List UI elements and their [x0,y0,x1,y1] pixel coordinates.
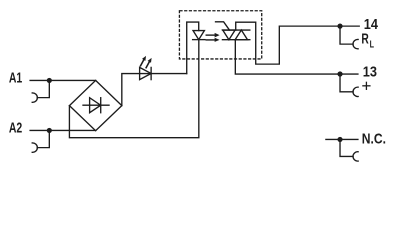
svg-text:13: 13 [363,64,377,80]
coupling arrow 2 [206,38,219,42]
wire triac MT2 to terminal 14 [236,22,360,64]
diode D1 triangle [90,98,101,113]
wire triac MT1 to terminal 13 [235,40,358,74]
opto LED triangle [193,31,204,40]
terminal clamp 13 [353,87,358,96]
wire bridge minus: left corner down [69,40,198,138]
wire N.C. stub [326,138,358,140]
svg-text:N.C.: N.C. [362,131,386,147]
wire 14 clamp riser [340,26,353,44]
LED V1 emission arrow 2 [146,58,152,68]
wire A1 horizontal [30,79,95,81]
wire 13 clamp riser [340,74,353,92]
LED V1 cathode bar [150,67,152,79]
diode D1 cathode bar [100,98,102,113]
LED V1 emission arrow 1 [141,56,147,66]
wire N.C. clamp riser [340,139,353,156]
triac Q1 left triangle [223,30,235,40]
node junction A2 [47,128,52,133]
node junction A1 [47,78,52,83]
node junction N.C. [337,137,342,142]
wire A1 clamp riser [37,80,49,97]
optocoupler U1 dashed box [179,11,261,59]
wire A2 horizontal [30,129,95,131]
svg-text:A2: A2 [9,121,22,137]
terminal clamp A1 [32,93,37,102]
triac Q1 gate lead [216,22,230,30]
diode D1 inside bridge lead [83,104,109,106]
wire A2 clamp riser [37,130,49,147]
wire opto LED anode [187,22,199,73]
node junction 14 [337,24,342,29]
triac Q1 bottom rail [222,39,249,41]
triac Q1 top rail [222,29,249,31]
LED V1 indicator triangle [140,67,152,79]
triac Q1 right triangle [235,30,247,40]
bridge rectifier B1 diamond [69,80,121,130]
terminal clamp N.C. [353,152,358,161]
label plus sign [363,85,370,87]
svg-text:L: L [370,39,374,50]
terminal clamp A2 [32,143,37,152]
svg-text:R: R [361,31,369,47]
coupling arrow 1 [206,33,219,37]
opto LED cathode bar [193,39,205,41]
node junction 13 [337,71,342,76]
svg-text:A1: A1 [9,71,22,87]
terminal clamp 14 [353,39,358,48]
wire bridge plus: right corner up to LED wire [122,74,187,106]
